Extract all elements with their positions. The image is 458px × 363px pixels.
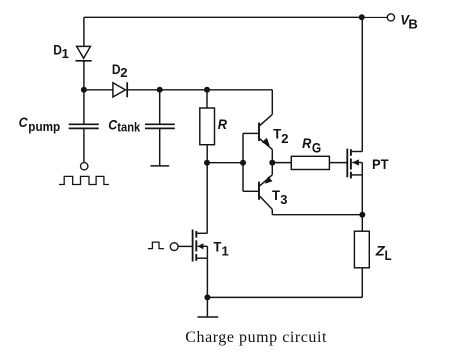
svg-text:pump: pump [28,119,60,134]
svg-text:T: T [272,187,280,203]
svg-text:2: 2 [120,65,127,80]
svg-text:1: 1 [222,243,229,258]
svg-text:tank: tank [117,120,141,135]
svg-text:Charge pump circuit: Charge pump circuit [185,329,327,346]
svg-text:B: B [408,16,417,31]
svg-text:3: 3 [280,192,287,207]
svg-text:R: R [302,135,312,151]
svg-text:D: D [53,41,62,57]
svg-text:PT: PT [372,156,389,172]
svg-text:C: C [19,114,29,130]
svg-text:L: L [385,248,392,263]
svg-text:G: G [312,140,321,155]
svg-text:2: 2 [281,131,288,146]
svg-text:1: 1 [62,46,69,61]
svg-text:D: D [112,61,121,77]
svg-text:R: R [218,116,228,132]
svg-text:Z: Z [375,243,385,259]
